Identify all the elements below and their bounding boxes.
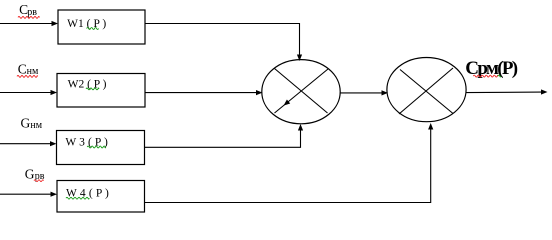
S1 diagonal NE-SW with internal arrowhead	[275, 69, 329, 113]
summing junction S2	[387, 58, 466, 122]
svg-text:нм: нм	[30, 120, 42, 131]
wire S2 output	[466, 91, 541, 94]
block W3	[57, 131, 145, 165]
summing junction S1	[262, 60, 340, 124]
wire W2 to summer1 left	[145, 92, 256, 94]
svg-text:рв: рв	[27, 7, 37, 18]
wire input to W2	[0, 92, 51, 94]
svg-text:W2 ( P ): W2 ( P )	[68, 79, 107, 91]
grammar squiggle in W4	[66, 197, 89, 199]
spellcheck squiggle under Cnm	[17, 76, 38, 78]
wire W3 to summer1 bottom	[145, 130, 301, 147]
wire input to W4	[0, 193, 51, 195]
svg-text:W 3 ( P ): W 3 ( P )	[65, 137, 108, 149]
wire input to W3	[0, 143, 51, 145]
S1 diagonal NW-SE	[275, 69, 328, 114]
grammar squiggle in W1	[87, 28, 99, 30]
wire S1 to S2	[340, 92, 382, 94]
block W1	[58, 10, 145, 44]
svg-text:G: G	[25, 166, 35, 181]
svg-text:G: G	[21, 115, 31, 130]
wire W4 to summer2 bottom	[145, 129, 431, 203]
spellcheck squiggle under Cpv	[18, 17, 40, 19]
grammar squiggle in W2	[86, 88, 99, 90]
wire input to W1	[0, 23, 52, 25]
S2 diagonal NW-SE	[400, 70, 453, 114]
S2 diagonal NE-SW	[399, 68, 453, 114]
svg-text:C: C	[18, 61, 27, 76]
wire W1 to summer1 top	[145, 24, 300, 56]
block W2	[57, 74, 145, 108]
spellcheck squiggle under Crm(P)	[473, 75, 498, 77]
block W4	[57, 181, 145, 213]
spellcheck squiggle under Grv subscript	[34, 180, 44, 182]
grammar squiggle in W3	[87, 146, 106, 148]
